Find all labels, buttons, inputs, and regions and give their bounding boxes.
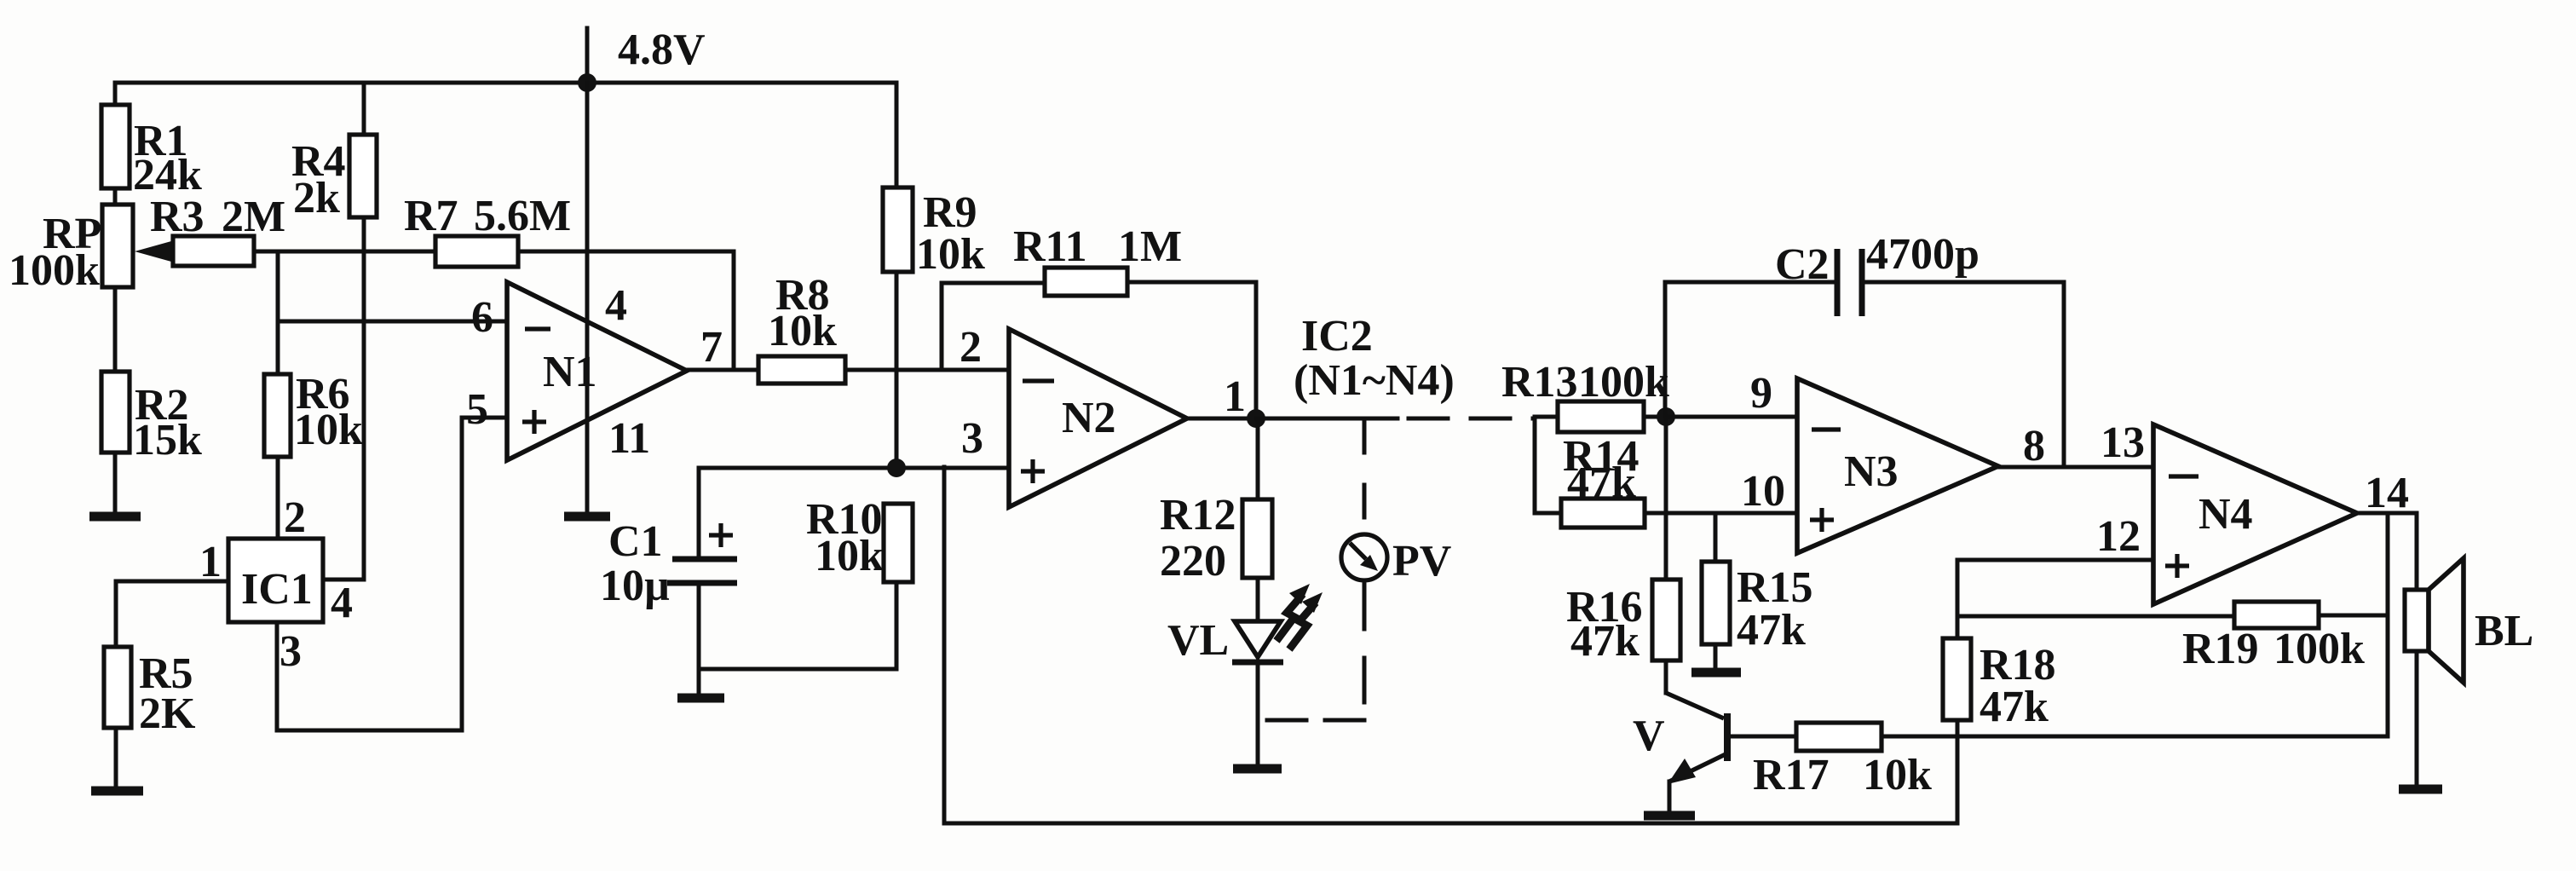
wire rail to R9 [895,83,899,187]
wire dashed PV branch stub [1363,418,1367,453]
LED VL [1235,621,1281,657]
wire 4.8V stub [585,28,590,83]
node pin3 junction [887,459,906,477]
meter PV [1341,534,1387,580]
svg-text:R12: R12 [1160,491,1236,539]
wire R11 to node 1 [1127,282,1256,418]
wire R14 to N3 pin 10 [1645,511,1797,516]
svg-text:V: V [1633,712,1665,760]
op-amp N4 [2153,424,2357,604]
svg-text:14: 14 [2365,469,2409,517]
wire R19 tap [1957,614,2234,619]
wire R9 to pin3 node [895,272,899,468]
resistor R14 [1561,499,1645,528]
wire R13 to node [1644,415,1666,419]
svg-text:5: 5 [466,385,488,434]
svg-text:3: 3 [279,627,302,676]
svg-text:10k: 10k [294,406,363,454]
op-amp N3 [1797,378,1998,553]
wire node down to R16 [1664,417,1668,580]
op-amp N2 [1009,329,1187,507]
ground N1 pin 11 [564,512,610,522]
wire R6 to IC1 pin 2 [276,457,280,539]
svg-text:4700p: 4700p [1866,230,1980,279]
wire rail to R1 [113,83,118,105]
wire R3 node down to R6 [276,251,280,374]
resistor R18 [1943,638,1971,720]
svg-text:2K: 2K [139,689,196,738]
wire R3 to R7 [254,250,435,254]
wire node 1 to R12 [1256,418,1260,499]
resistor R12 [1242,499,1272,578]
ground [677,694,724,703]
svg-text:6: 6 [471,293,493,342]
svg-text:7: 7 [700,323,723,372]
speaker BL [2405,590,2429,651]
svg-text:R19: R19 [2182,625,2259,673]
resistor R5 [104,647,131,728]
wire N1 pin 6 [278,320,507,324]
wire speaker feed [2415,513,2419,590]
wire R17 to output drop [1882,735,2388,739]
resistor R3 [173,236,254,266]
wire VL to ground [1256,666,1260,764]
wire N2 output [1187,417,1259,421]
wire R19 to output drop [2319,614,2388,618]
resistor R7 [435,236,518,267]
wire speaker to ground [2415,651,2419,785]
svg-text:2k: 2k [293,174,340,222]
svg-text:4: 4 [331,579,353,627]
svg-text:2: 2 [284,493,306,542]
svg-text:C1: C1 [608,517,663,566]
node N3 pin 9 junction [1657,407,1675,426]
wire N1 output pin 7 [687,368,758,372]
svg-text:4.8V: 4.8V [618,26,706,74]
resistor R10 [884,504,913,582]
ground [89,512,141,522]
wire output down to R17 line [2386,513,2390,736]
svg-text:100k: 100k [9,246,100,295]
svg-text:47k: 47k [1980,683,2049,731]
wire N1 pin 5 to IC1 pin 3 [277,418,507,730]
svg-text:R15: R15 [1737,563,1813,612]
wire power line through N1 [585,83,590,514]
svg-text:5.6M: 5.6M [474,192,571,240]
wire R18 bottom to feedback [1956,720,1960,823]
svg-text:100k: 100k [2273,625,2365,673]
svg-text:R11: R11 [1013,222,1087,271]
svg-text:(N1~N4): (N1~N4) [1294,356,1455,405]
wire IC1 pin 1 to R5 [116,581,228,647]
wire C1 bottom loop to R10 [699,582,896,669]
svg-text:12: 12 [2096,512,2141,561]
svg-text:R3: R3 [150,193,205,241]
wire N2 pin3 node to bottom feedback [944,467,1957,823]
svg-text:IC1: IC1 [241,565,313,614]
svg-text:10k: 10k [916,230,985,279]
resistor R15 [1702,562,1730,644]
svg-text:1M: 1M [1118,222,1182,271]
resistor R19 [2234,602,2319,628]
capacitor C2 left branch [1665,282,1837,417]
svg-text:VL: VL [1167,616,1229,665]
resistor R4 [349,135,377,217]
svg-text:9: 9 [1750,369,1772,418]
wire dashed to R13 bracket [1409,417,1535,421]
node 4.8V junction [578,73,596,92]
resistor R2 [101,372,130,453]
ground [1644,811,1695,821]
svg-text:10k: 10k [815,532,884,580]
wire R7 to feedback corner [518,250,734,254]
wire up to R11 [942,283,1045,370]
wire R16 to transistor collector [1664,660,1668,693]
wire R15 to ground [1714,644,1718,668]
wire dashed PV lower [1363,585,1367,720]
wire dashed PV to VL cathode [1259,718,1364,723]
svg-text:2M: 2M [222,193,285,241]
svg-text:IC2: IC2 [1301,312,1373,361]
svg-text:2: 2 [960,323,982,372]
wire down to C1 [697,468,701,557]
svg-text:N2: N2 [1062,394,1116,442]
wire transistor base to R17 [1731,735,1796,739]
svg-text:13: 13 [2101,418,2145,467]
resistor R9 [883,187,913,272]
svg-text:3: 3 [961,414,983,463]
resistor R16 [1652,580,1680,660]
wire emitter to ground [1668,782,1672,811]
wire C1 branch to N2 pin 3 [699,466,1009,470]
resistor R8 [758,356,845,384]
svg-text:47k: 47k [1737,606,1806,655]
svg-text:R13: R13 [1501,358,1578,407]
ground [1691,668,1741,678]
svg-text:1: 1 [1224,372,1246,421]
svg-text:47k: 47k [1567,459,1636,507]
resistor R11 [1045,268,1127,296]
wire C1 to ground [697,669,701,693]
svg-text:C2: C2 [1775,240,1830,289]
svg-text:R17: R17 [1753,751,1830,799]
wire N4 pin 12 to R18 [1957,560,2153,638]
svg-text:N1: N1 [543,348,597,396]
capacitor C1 [672,557,737,562]
IC IC1 [228,539,323,622]
wire R1 to RP [113,188,118,205]
wire N1 feedback drop [732,251,736,370]
wire R15 branch [1714,513,1718,562]
resistor R17 [1796,723,1882,751]
svg-text:10k: 10k [1863,751,1932,799]
svg-text:47k: 47k [1570,617,1640,666]
resistor R1 [101,105,130,188]
wire N3 output to N4 pin 13 [1998,465,2153,470]
wire R4 to IC1 pin 4 [323,217,364,580]
svg-text:11: 11 [608,414,650,463]
capacitor C2 [1835,249,1841,316]
wire R12 to VL [1256,578,1260,621]
svg-text:N4: N4 [2199,490,2253,539]
node 1 output junction [1247,409,1265,428]
wire 4.8V power rail [115,81,896,85]
wire dashed PV upper [1363,485,1367,534]
wire rail to R4 [362,83,366,135]
svg-text:BL: BL [2475,607,2533,655]
resistor R13 [1558,401,1644,432]
wire RP to R2 [113,287,118,372]
potentiometer RP [102,205,133,287]
svg-text:N3: N3 [1844,447,1899,496]
ground [2399,785,2442,794]
transistor V [1724,713,1731,761]
svg-text:10: 10 [1741,467,1785,516]
wire R2 to ground [113,453,118,514]
svg-text:R7: R7 [404,192,458,240]
ground [1233,764,1282,774]
svg-text:220: 220 [1160,537,1226,585]
svg-text:15k: 15k [133,416,202,464]
svg-text:PV: PV [1392,537,1451,585]
resistor R6 [264,374,291,457]
wire R13/R14 left bracket [1535,417,1561,513]
svg-text:10k: 10k [768,307,837,355]
svg-text:100k: 100k [1578,358,1669,407]
wire R8 to N2 pin 2 [845,368,1009,372]
svg-text:10µ: 10µ [600,562,670,610]
ground [91,787,143,796]
wire C2 right branch [1862,282,2064,467]
op-amp N1 [507,282,687,460]
svg-text:4: 4 [605,281,627,330]
wire N4 output [2357,511,2417,516]
wire R5 to ground [114,728,118,787]
wire node 1 solid segment right [1256,417,1397,421]
svg-text:8: 8 [2023,422,2045,470]
svg-text:1: 1 [199,538,222,586]
wire node to N3 pin 9 [1666,415,1797,419]
